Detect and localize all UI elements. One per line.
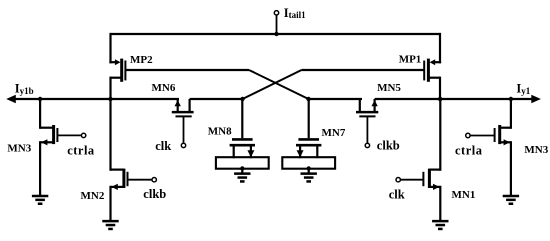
svg-text:ctrla: ctrla — [67, 144, 95, 158]
svg-text:clkb: clkb — [143, 187, 166, 201]
svg-text:Iy1b: Iy1b — [15, 82, 34, 96]
svg-text:MP2: MP2 — [130, 54, 153, 66]
svg-text:MN6: MN6 — [152, 82, 176, 94]
svg-text:Iy1: Iy1 — [516, 82, 530, 96]
svg-text:MN5: MN5 — [377, 82, 401, 94]
svg-text:MN3: MN3 — [7, 142, 31, 154]
svg-text:MP1: MP1 — [399, 53, 422, 65]
svg-text:MN8: MN8 — [208, 126, 232, 138]
svg-text:MN3: MN3 — [524, 144, 548, 156]
svg-text:MN1: MN1 — [452, 189, 476, 201]
svg-text:MN7: MN7 — [322, 127, 346, 139]
svg-text:clk: clk — [389, 187, 405, 201]
svg-text:Itail1: Itail1 — [284, 6, 306, 20]
svg-text:clk: clk — [155, 139, 171, 153]
svg-text:clkb: clkb — [377, 139, 400, 153]
svg-text:ctrla: ctrla — [455, 143, 483, 157]
svg-text:MN2: MN2 — [81, 190, 105, 202]
